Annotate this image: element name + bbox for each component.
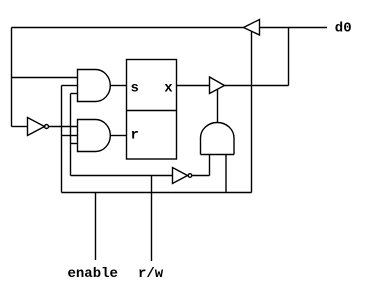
svg-text:s: s [131, 81, 139, 97]
svg-text:enable: enable [68, 266, 118, 282]
svg-text:d0: d0 [335, 21, 352, 37]
svg-text:r/w: r/w [138, 266, 164, 282]
svg-text:r: r [131, 128, 139, 144]
svg-text:x: x [164, 81, 173, 97]
